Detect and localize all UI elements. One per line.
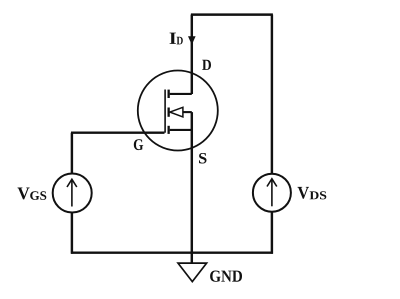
transistor Q1: source channel tick bbox=[168, 126, 170, 134]
source VDS arrow bbox=[267, 179, 277, 207]
label D (drain pin) bbox=[202, 60, 211, 70]
transistor Q1: gate line bbox=[164, 90, 166, 133]
wire bottom (VGS branch to VDS branch) bbox=[71, 251, 273, 253]
label G (gate pin) bbox=[134, 139, 143, 150]
transistor Q1: MOSFET body circle bbox=[138, 71, 218, 151]
wire right branch upper (top wire to VDS) bbox=[271, 15, 273, 174]
label ID bbox=[170, 33, 183, 45]
wire left branch lower (VGS to bottom wire) bbox=[71, 212, 73, 254]
transistor Q1: body stub bbox=[183, 111, 192, 113]
transistor Q1: drain channel tick bbox=[168, 90, 170, 98]
wire top (drain to VDS branch) bbox=[191, 13, 273, 15]
source VDS circle bbox=[253, 174, 291, 212]
label VGS bbox=[18, 188, 47, 200]
wire right branch lower (VDS to bottom wire) bbox=[271, 212, 273, 254]
label VDS bbox=[298, 187, 327, 200]
label S (source pin) bbox=[199, 153, 207, 164]
transistor Q1: body arrow (points to gate) bbox=[170, 107, 183, 117]
transistor Q1: drain stub bbox=[170, 93, 192, 95]
ground symbol bbox=[178, 263, 207, 282]
transistor Q1: body channel tick bbox=[168, 108, 170, 117]
current arrow ID on drain wire bbox=[188, 36, 196, 45]
transistor Q1: source stub bbox=[170, 129, 192, 131]
wire left branch upper (gate corner to VGS) bbox=[71, 133, 73, 175]
wire drain vertical bbox=[191, 15, 193, 94]
label GND bbox=[210, 271, 242, 282]
wire gate lead bbox=[71, 131, 165, 133]
source VGS arrow bbox=[67, 179, 77, 206]
source VGS circle bbox=[53, 174, 92, 213]
wire source vertical (body stub down through bottom wire to ground) bbox=[191, 112, 193, 263]
